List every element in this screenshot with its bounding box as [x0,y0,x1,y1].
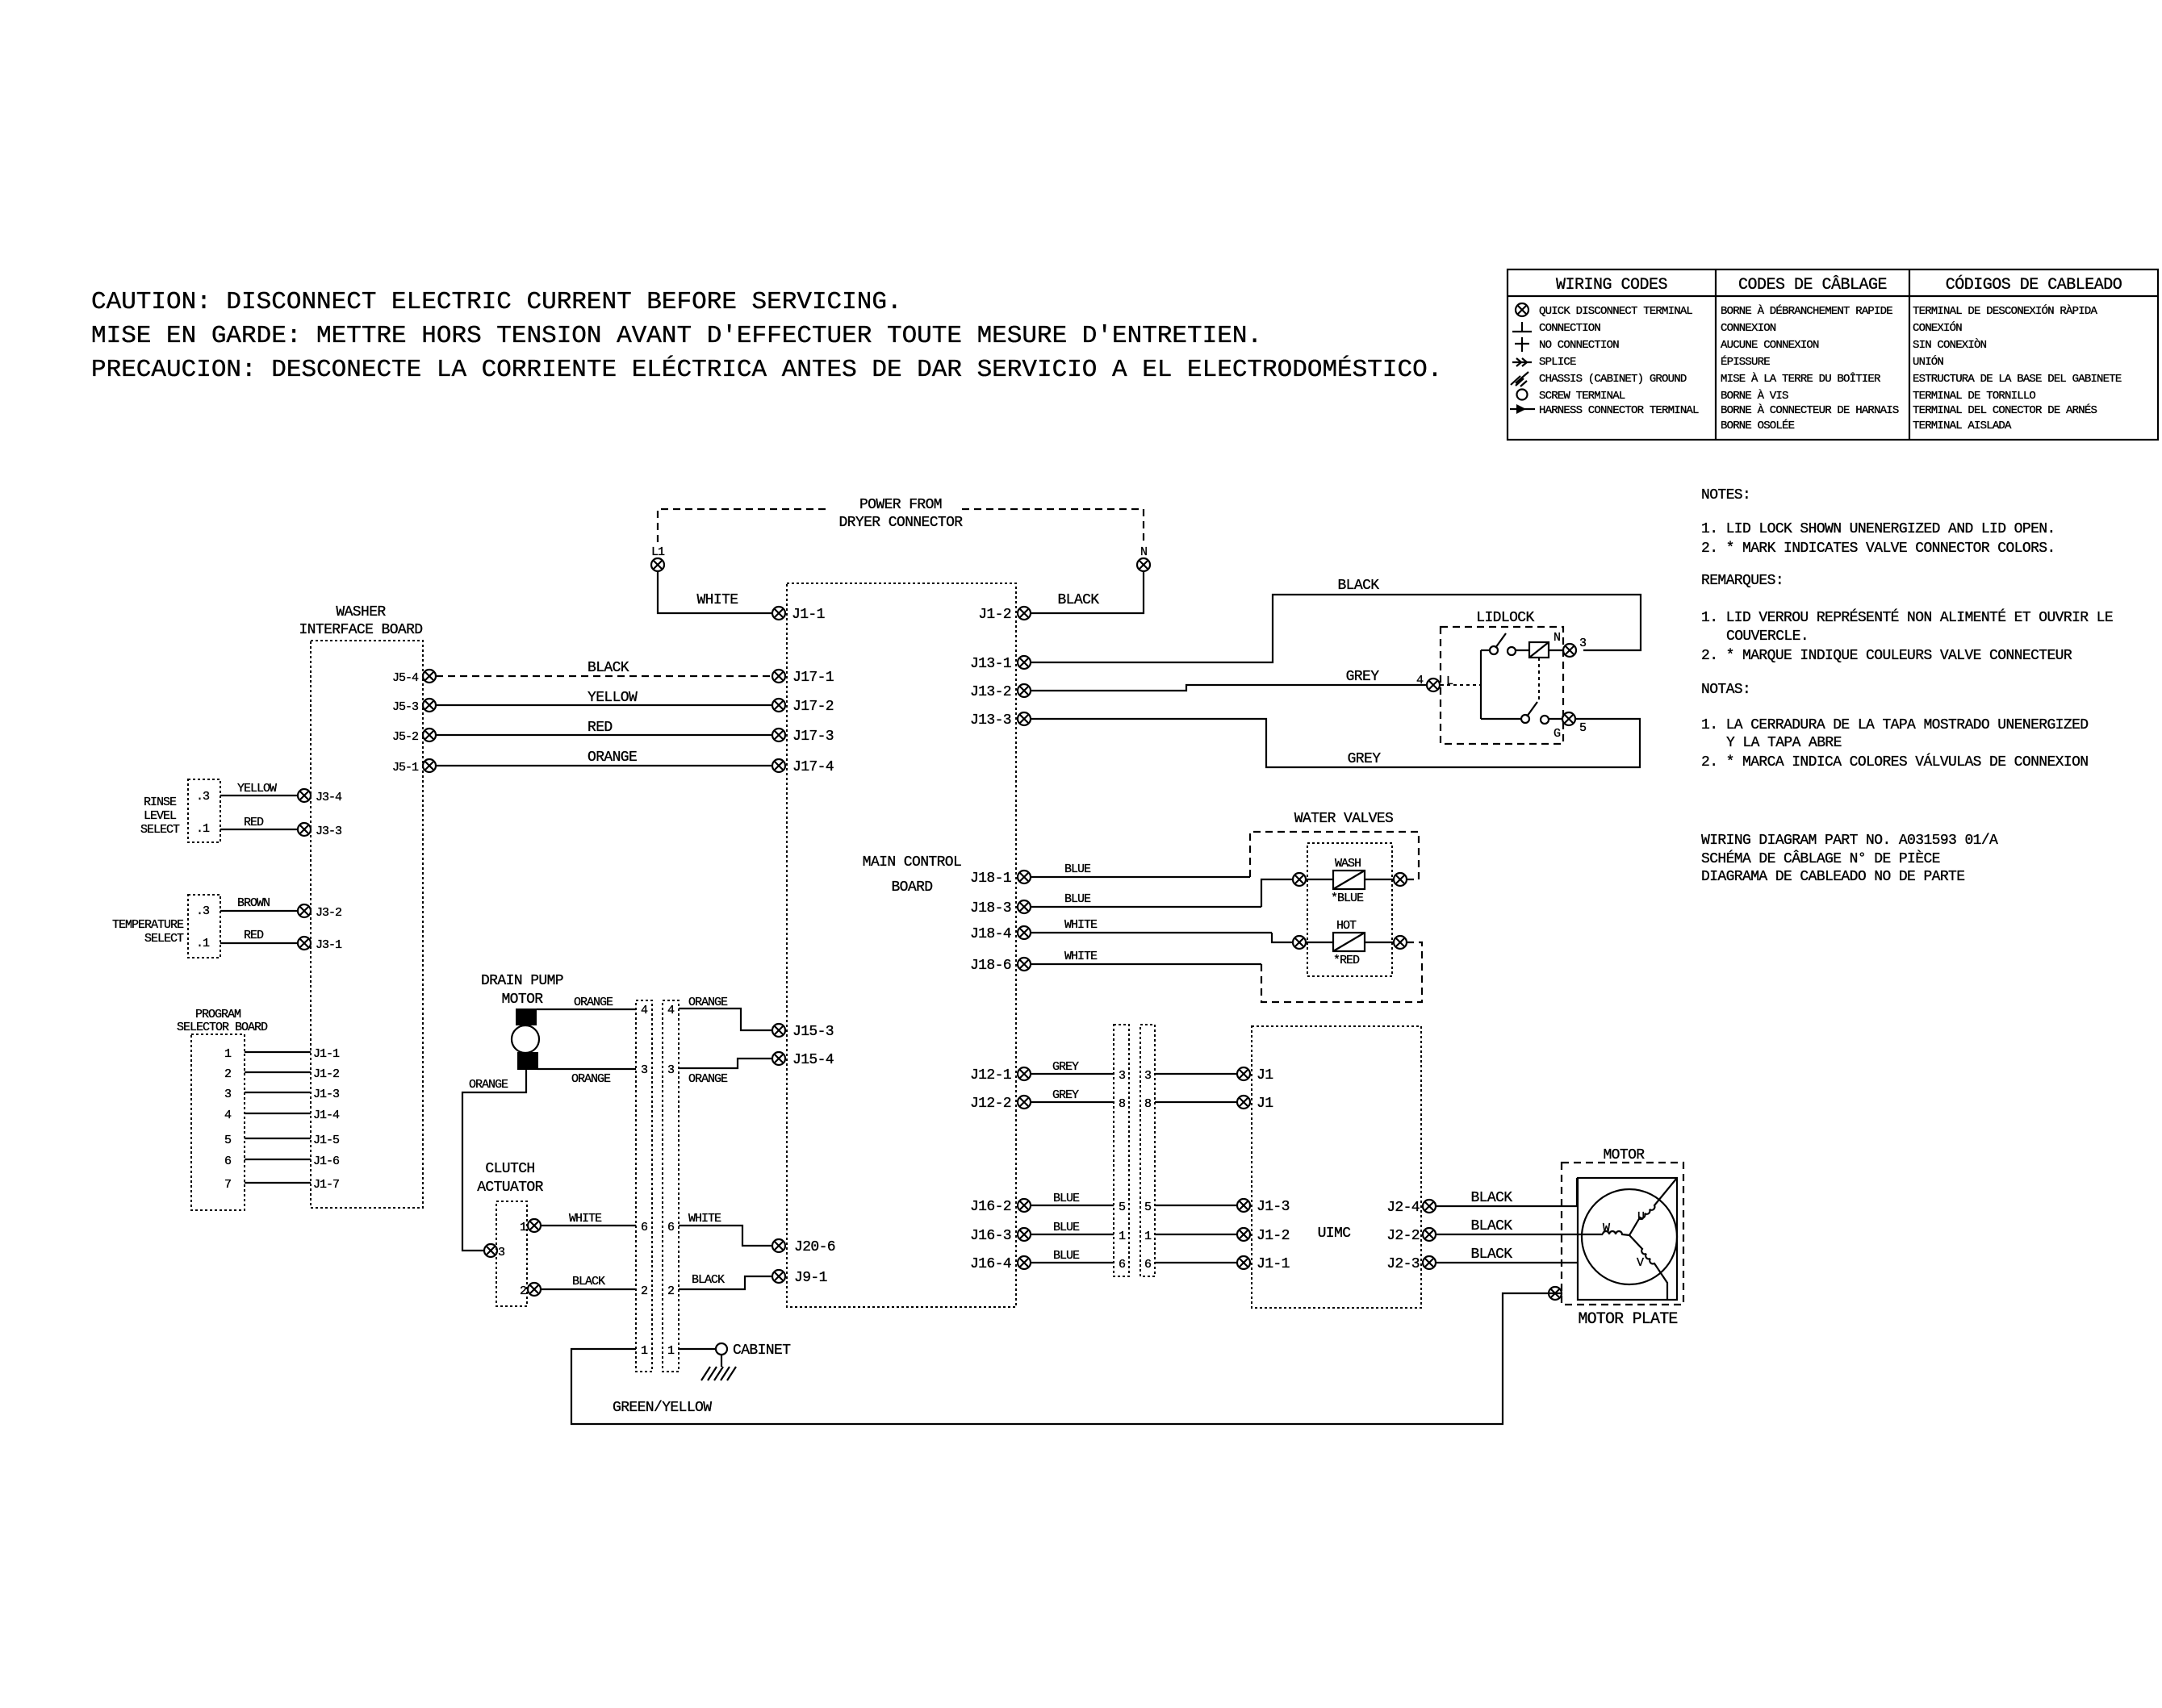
svg-text:6: 6 [224,1155,232,1168]
svg-text:BLUE: BLUE [1064,892,1091,906]
caution text block [91,288,1442,384]
svg-text:V: V [1637,1256,1644,1270]
svg-text:J1-4: J1-4 [313,1109,340,1122]
svg-text:4: 4 [224,1109,232,1122]
svg-text:YELLOW: YELLOW [588,690,638,706]
wash valve terminal left [1293,873,1306,886]
terminal J3-3 [298,823,342,838]
lidlock box [1441,627,1563,744]
clutch pin 3 [484,1244,505,1259]
motor inner plate [1578,1178,1677,1300]
wire pin1 to cabinet screw terminal [679,1348,716,1350]
wire program pin4 to J1-4 [245,1109,340,1122]
svg-text:SELECT: SELECT [140,823,180,837]
wire pin3 ORANGE to J15-4 [679,1059,772,1086]
table col1 labels [1539,305,1699,417]
svg-text:BLACK: BLACK [1470,1247,1512,1263]
svg-text:J12-1: J12-1 [970,1067,1011,1084]
svg-text:1: 1 [1144,1230,1152,1243]
wire J2-2 BLACK to motor W [1436,1218,1603,1234]
svg-text:J18-6: J18-6 [970,958,1011,974]
svg-text:J20-6: J20-6 [794,1239,835,1255]
svg-text:HARNESS CONNECTOR TERMINAL: HARNESS CONNECTOR TERMINAL [1539,404,1699,417]
svg-text:BORNE À DÉBRANCHEMENT RAPIDE: BORNE À DÉBRANCHEMENT RAPIDE [1721,303,1892,318]
terminal J3-1 [298,937,342,952]
terminal J16-3 [970,1228,1031,1244]
svg-text:J1-6: J1-6 [313,1155,340,1168]
terminal J5-3 [392,699,436,714]
wire strip pin3 to UIMC J1 [1155,1073,1237,1075]
clutch actuator [477,1161,543,1306]
terminal J5-2 [392,729,436,744]
terminal J18-3 [970,900,1031,917]
lidlock switch N [1481,633,1529,655]
svg-text:J18-4: J18-4 [970,926,1011,942]
program selector board [177,1008,268,1210]
terminal J2-2 [1386,1228,1436,1244]
wire J13-2 GREY to lidlock 4 [1031,669,1427,691]
symbol quick disconnect terminal [1516,303,1528,316]
wire program pin2 to J1-2 [245,1067,339,1081]
svg-text:TERMINAL DE TORNILLO: TERMINAL DE TORNILLO [1913,390,2035,403]
svg-text:MISE EN GARDE: METTRE HORS TEN: MISE EN GARDE: METTRE HORS TENSION AVANT… [91,322,1262,350]
svg-text:J17-2: J17-2 [792,699,834,715]
terminal J20-6 [772,1239,835,1255]
svg-text:J3-1: J3-1 [316,938,342,952]
svg-text:TERMINAL DEL CONECTOR DE ARNÉS: TERMINAL DEL CONECTOR DE ARNÉS [1913,403,2097,417]
svg-text:CLUTCH: CLUTCH [485,1161,534,1177]
svg-text:J18-3: J18-3 [970,900,1011,917]
svg-text:BLACK: BLACK [572,1275,605,1288]
svg-text:CONNECTION: CONNECTION [1539,322,1600,335]
svg-text:J2-3: J2-3 [1386,1256,1420,1272]
svg-text:RED: RED [244,816,264,829]
svg-text:SELECTOR BOARD: SELECTOR BOARD [177,1021,268,1034]
terminal J15-3 [772,1024,834,1040]
svg-text:J13-3: J13-3 [970,712,1011,729]
svg-text:1: 1 [1119,1230,1126,1243]
svg-text:YELLOW: YELLOW [237,782,277,796]
cabinet ground [701,1355,736,1380]
terminal J13-3 [970,712,1031,729]
svg-text:8: 8 [1144,1097,1152,1111]
terminal J9-1 [772,1270,827,1286]
terminal J2-3 [1386,1256,1436,1272]
svg-text:CHASSIS (CABINET) GROUND: CHASSIS (CABINET) GROUND [1539,373,1687,386]
wire drain pump top ORANGE to connector pin4 [537,996,636,1009]
svg-text:J1: J1 [1257,1067,1273,1084]
svg-text:BLACK: BLACK [1470,1190,1512,1206]
svg-text:REMARQUES:: REMARQUES: [1701,573,1784,589]
svg-text:ORANGE: ORANGE [574,996,613,1009]
wire J18-4 WHITE to hot left [1031,918,1292,942]
svg-text:TERMINAL AISLADA: TERMINAL AISLADA [1913,420,2012,432]
svg-text:3: 3 [498,1246,505,1259]
svg-text:6: 6 [1144,1258,1152,1272]
svg-text:J5-2: J5-2 [392,730,418,744]
svg-text:CABINET: CABINET [733,1343,791,1359]
svg-text:J16-2: J16-2 [970,1199,1011,1215]
wire J16-3 BLUE [1031,1221,1114,1234]
clutch pin 2 [520,1283,541,1298]
table col3 labels [1913,303,2122,432]
svg-text:.3: .3 [196,904,210,918]
svg-text:ORANGE: ORANGE [571,1072,611,1086]
svg-text:J17-1: J17-1 [792,670,834,686]
svg-text:DIAGRAMA DE CABLEADO NO DE PAR: DIAGRAMA DE CABLEADO NO DE PARTE [1701,869,1964,885]
svg-text:ORANGE: ORANGE [688,996,728,1009]
svg-text:HOT: HOT [1336,919,1357,933]
svg-text:BLUE: BLUE [1053,1192,1080,1205]
svg-text:BLACK: BLACK [1337,578,1379,594]
svg-text:SIN CONEXIÒN: SIN CONEXIÒN [1913,337,1987,352]
svg-text:GREY: GREY [1346,669,1380,685]
svg-text:N: N [1554,631,1560,645]
svg-text:2: 2 [224,1067,231,1081]
svg-text:3: 3 [667,1063,675,1077]
svg-text:CONNEXION: CONNEXION [1721,322,1776,335]
svg-text:W: W [1603,1221,1610,1235]
wire program pin3 to J1-3 [245,1088,340,1101]
svg-text:3: 3 [1119,1069,1126,1083]
svg-text:ÉPISSURE: ÉPISSURE [1721,354,1770,369]
symbol splice [1512,358,1532,366]
dashed power line left [658,509,827,542]
svg-text:1: 1 [641,1344,648,1358]
svg-text:BORNE À VIS: BORNE À VIS [1721,388,1788,403]
hot valve terminal right [1394,936,1407,949]
wire J16-4 BLUE [1031,1249,1114,1263]
svg-text:J5-1: J5-1 [392,761,419,775]
wire clutch pin1 WHITE to pin6 [542,1212,636,1226]
svg-text:COUVERCLE.: COUVERCLE. [1726,628,1809,645]
wire rinse .1 RED to J3-3 [220,816,298,829]
wire GREEN/YELLOW ground run [571,1293,1549,1424]
svg-text:L1: L1 [651,545,665,559]
wire J12-2 GREY [1031,1088,1114,1102]
dashed power line right [962,509,1144,542]
wash valve [1307,857,1393,905]
svg-text:WHITE: WHITE [569,1212,602,1226]
svg-text:PROGRAM: PROGRAM [195,1008,241,1021]
svg-text:SCREW TERMINAL: SCREW TERMINAL [1539,390,1625,403]
svg-text:ACTUATOR: ACTUATOR [477,1180,543,1196]
wire drain pump ORANGE to clutch pin3 [462,1070,526,1251]
svg-text:1: 1 [520,1221,527,1234]
wire strip pin5 to UIMC J1-3 [1155,1205,1237,1206]
wire program pin6 to J1-6 [245,1155,340,1168]
wire N to J1-2 BLACK [1031,572,1144,613]
svg-text:2: 2 [641,1284,647,1298]
svg-text:NOTES:: NOTES: [1701,487,1750,503]
wire J18-3 BLUE to wash left [1031,879,1292,907]
svg-text:RED: RED [588,720,613,736]
wire J5-3 to J17-2 YELLOW [436,690,772,706]
terminal J2-4 [1386,1200,1436,1216]
svg-text:4: 4 [1416,674,1424,687]
svg-text:WASHER: WASHER [336,604,386,620]
svg-text:7: 7 [224,1178,231,1192]
svg-text:CONEXIÓN: CONEXIÓN [1913,320,1962,335]
wire pin6 WHITE to J20-6 [679,1212,772,1246]
wire strip pin1 to UIMC J1-2 [1155,1234,1237,1235]
svg-text:J1-2: J1-2 [1257,1228,1290,1244]
svg-text:DRYER CONNECTOR: DRYER CONNECTOR [838,515,963,531]
svg-text:TERMINAL DE DESCONEXIÓN RÀPIDA: TERMINAL DE DESCONEXIÓN RÀPIDA [1913,303,2097,318]
lidlock terminal 5 [1562,712,1587,735]
svg-text:3: 3 [224,1088,232,1101]
svg-text:6: 6 [641,1221,648,1234]
svg-text:LIDLOCK: LIDLOCK [1476,610,1534,626]
wire temp .3 BROWN to J3-2 [220,896,298,911]
motor plate box [1562,1163,1683,1305]
wire J2-3 BLACK to motor V [1436,1247,1579,1263]
wire motor plate ground stub [1549,1292,1562,1294]
svg-text:J15-4: J15-4 [792,1052,834,1068]
svg-text:NO CONNECTION: NO CONNECTION [1539,339,1619,352]
svg-text:6: 6 [667,1221,675,1234]
svg-text:J16-4: J16-4 [970,1256,1011,1272]
svg-text:BOARD: BOARD [891,879,932,896]
svg-text:BLACK: BLACK [1470,1218,1512,1234]
svg-text:GREY: GREY [1052,1060,1079,1074]
svg-text:WHITE: WHITE [1064,918,1098,932]
cabinet screw terminal [716,1343,791,1359]
svg-text:GREEN/YELLOW: GREEN/YELLOW [613,1400,712,1416]
svg-text:J1-5: J1-5 [313,1134,340,1147]
terminal J1-2 [978,607,1031,623]
svg-text:ORANGE: ORANGE [588,750,637,766]
svg-text:J1-2: J1-2 [313,1067,339,1081]
svg-text:.3: .3 [196,790,210,804]
svg-text:J16-3: J16-3 [970,1228,1011,1244]
power from dryer connector label [838,497,963,531]
svg-text:BLACK: BLACK [692,1273,725,1287]
svg-text:J3-3: J3-3 [316,825,342,838]
lidlock terminal 4 [1416,674,1453,691]
wire J12-1 GREY [1031,1060,1114,1074]
svg-text:UIMC: UIMC [1318,1226,1352,1242]
symbol chassis ground [1511,372,1528,386]
svg-text:J1-2: J1-2 [978,607,1011,623]
main control board [787,583,1016,1307]
svg-text:ESTRUCTURA DE LA BASE DEL GABI: ESTRUCTURA DE LA BASE DEL GABINETE [1913,373,2122,386]
svg-text:WHITE: WHITE [688,1212,721,1226]
left harness connector strip A [636,1000,652,1372]
UIMC board [1252,1026,1421,1308]
wire drain pump bottom ORANGE to connector pin3 [537,1069,636,1086]
clutch pin 1 [520,1219,541,1234]
svg-text:*BLUE: *BLUE [1331,892,1364,905]
svg-text:2. * MARK INDICATES VALVE CONN: 2. * MARK INDICATES VALVE CONNECTOR COLO… [1701,541,2055,557]
terminal J12-1 [970,1067,1031,1084]
hot valve terminal left [1293,936,1306,949]
svg-text:INTERFACE BOARD: INTERFACE BOARD [299,622,422,638]
svg-text:5: 5 [1144,1201,1152,1214]
svg-text:RED: RED [244,929,264,942]
svg-text:5: 5 [1119,1201,1126,1214]
svg-text:1. LA CERRADURA DE LA TAPA MOS: 1. LA CERRADURA DE LA TAPA MOSTRADO UNEN… [1701,717,2088,733]
wire pin2 BLACK to J9-1 [679,1273,772,1289]
wire program pin7 to J1-7 [245,1178,339,1192]
drain pump motor [481,973,563,1070]
symbol harness connector terminal [1510,404,1535,414]
lidlock coil [1529,631,1560,658]
svg-text:J3-2: J3-2 [316,906,341,920]
svg-text:.1: .1 [196,822,210,836]
svg-text:BORNE À CONNECTEUR DE HARNAIS: BORNE À CONNECTEUR DE HARNAIS [1721,403,1899,417]
svg-text:AUCUNE CONNEXION: AUCUNE CONNEXION [1721,339,1819,352]
svg-text:WATER VALVES: WATER VALVES [1294,811,1393,827]
terminal J13-1 [970,656,1031,672]
svg-text:CAUTION: DISCONNECT ELECTRIC C: CAUTION: DISCONNECT ELECTRIC CURRENT BEF… [91,288,902,316]
svg-text:GREY: GREY [1348,751,1382,767]
svg-text:.1: .1 [196,937,210,950]
svg-text:3: 3 [641,1063,648,1077]
terminal UIMC J1 row2 [1237,1096,1273,1112]
terminal J16-4 [970,1256,1031,1272]
svg-text:MOTOR: MOTOR [1603,1147,1645,1163]
terminal J17-4 [772,759,834,775]
svg-text:J5-4: J5-4 [392,671,419,685]
svg-text:J1-7: J1-7 [313,1178,339,1192]
terminal J12-2 [970,1096,1031,1112]
svg-text:BLACK: BLACK [1057,592,1099,608]
terminal J15-4 [772,1052,834,1068]
symbol no connection [1515,337,1529,352]
svg-text:ORANGE: ORANGE [469,1078,508,1092]
svg-text:J2-2: J2-2 [1386,1228,1420,1244]
svg-text:SPLICE: SPLICE [1539,356,1576,369]
svg-text:WHITE: WHITE [696,592,738,608]
wire clutch pin2 BLACK to pin2 [542,1275,636,1289]
middle harness connector strip A [1114,1025,1129,1276]
svg-text:*RED: *RED [1333,954,1360,967]
wire J13-1 BLACK bus to lidlock 3 [1031,578,1641,662]
svg-text:3: 3 [1144,1069,1152,1083]
svg-text:2: 2 [667,1284,674,1298]
motor winding W [1603,1221,1629,1235]
svg-text:WIRING CODES: WIRING CODES [1556,276,1668,294]
svg-text:PRECAUCION: DESCONECTE LA CORR: PRECAUCION: DESCONECTE LA CORRIENTE ELÉC… [91,354,1442,384]
wire J2-4 BLACK to motor U [1436,1178,1577,1206]
svg-text:4: 4 [667,1004,675,1017]
svg-text:LEVEL: LEVEL [144,809,177,823]
svg-text:BORNE OSOLÉE: BORNE OSOLÉE [1721,418,1795,432]
svg-text:J17-4: J17-4 [792,759,834,775]
node N [1137,545,1150,571]
svg-text:2. * MARCA INDICA COLORES VÁLV: 2. * MARCA INDICA COLORES VÁLVULAS DE CO… [1701,753,2088,770]
svg-text:SELECT: SELECT [144,932,184,946]
terminal J1-1 [772,607,825,623]
svg-text:J1-1: J1-1 [1257,1256,1290,1272]
svg-text:4: 4 [641,1004,648,1017]
svg-text:1. LID LOCK SHOWN UNENERGIZED: 1. LID LOCK SHOWN UNENERGIZED AND LID OP… [1701,521,2055,537]
svg-text:RINSE: RINSE [144,796,177,809]
svg-text:GREY: GREY [1052,1088,1079,1102]
terminal J13-2 [970,684,1031,700]
svg-text:J18-1: J18-1 [970,871,1011,887]
svg-text:ORANGE: ORANGE [688,1072,728,1086]
terminal J3-2 [298,904,341,920]
terminal J18-6 [970,958,1031,974]
temperature select box [112,895,220,958]
svg-text:U: U [1637,1210,1644,1224]
svg-text:N: N [1140,545,1147,559]
lidlock link dashed [1538,658,1540,703]
svg-text:1: 1 [667,1344,675,1358]
svg-text:G: G [1554,727,1561,741]
svg-text:TEMPERATURE: TEMPERATURE [112,918,184,932]
water valves inner box [1307,843,1392,976]
terminal J18-4 [970,926,1031,942]
svg-text:J17-3: J17-3 [792,729,834,745]
svg-text:POWER FROM: POWER FROM [859,497,942,513]
svg-text:CODES DE CÂBLAGE: CODES DE CÂBLAGE [1738,275,1887,294]
motor circle [1582,1189,1677,1284]
svg-text:BROWN: BROWN [237,896,270,910]
svg-text:1: 1 [224,1047,232,1061]
svg-text:NOTAS:: NOTAS: [1701,682,1750,698]
svg-text:2: 2 [520,1284,526,1298]
svg-text:DRAIN PUMP: DRAIN PUMP [481,973,563,989]
terminal J5-4 [392,670,436,685]
svg-text:BLUE: BLUE [1053,1249,1080,1263]
svg-text:3: 3 [1579,637,1587,650]
svg-text:SCHÉMA DE CÂBLAGE N° DE PIÈCE: SCHÉMA DE CÂBLAGE N° DE PIÈCE [1701,850,1940,867]
left harness connector strip B [663,1000,679,1372]
terminal UIMC J1-3 [1237,1199,1290,1215]
rinse level select box [140,779,220,842]
svg-text:MOTOR PLATE: MOTOR PLATE [1578,1310,1677,1329]
svg-text:5: 5 [224,1134,232,1147]
svg-text:BLACK: BLACK [588,660,629,676]
washer interface board [299,604,423,1208]
svg-text:MISE À LA TERRE DU BOÎTIER: MISE À LA TERRE DU BOÎTIER [1721,371,1881,386]
lidlock switch G [1481,702,1562,741]
node L1 [651,545,665,571]
svg-text:BLUE: BLUE [1053,1221,1080,1234]
svg-text:WIRING DIAGRAM PART NO. A03159: WIRING DIAGRAM PART NO. A031593 01/A [1701,833,1998,849]
symbol screw terminal [1517,390,1528,400]
terminal J17-1 [772,670,834,686]
svg-text:J5-3: J5-3 [392,700,419,714]
motor winding U [1629,1178,1677,1235]
motor winding V [1629,1235,1667,1300]
terminal J17-2 [772,699,834,715]
wire strip pin8 to UIMC J1 [1155,1101,1237,1103]
wire J5-2 to J17-3 RED [436,720,772,736]
svg-text:MAIN CONTROL: MAIN CONTROL [863,854,961,871]
wiring codes table frame [1508,269,2158,440]
terminal UIMC J1-1 [1237,1256,1290,1272]
terminal UIMC J1-2 [1237,1228,1290,1244]
wire pin4 ORANGE to J15-3 [679,996,772,1030]
svg-text:J3-4: J3-4 [316,791,342,804]
svg-text:UNIÓN: UNIÓN [1913,354,1943,369]
terminal UIMC J1 row1 [1237,1067,1273,1084]
wire J5-1 to J17-4 ORANGE [436,750,772,766]
terminal J18-1 [970,871,1031,887]
svg-text:J13-2: J13-2 [970,684,1011,700]
wire rinse .3 YELLOW to J3-4 [220,782,298,796]
svg-text:J15-3: J15-3 [792,1024,834,1040]
wire program pin1 to J1-1 [245,1047,340,1061]
wire temp .1 RED to J3-1 [220,929,298,943]
wire J13-3 GREY to lidlock 5 [1031,719,1640,767]
svg-text:J2-4: J2-4 [1386,1200,1420,1216]
svg-text:J1-1: J1-1 [792,607,825,623]
